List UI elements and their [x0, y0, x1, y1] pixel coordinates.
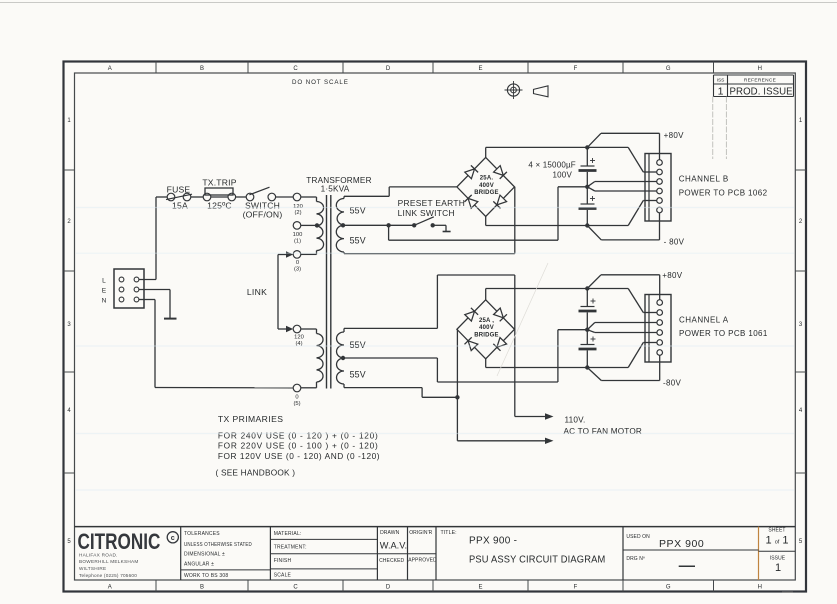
svg-text:TX.TRIP: TX.TRIP — [202, 178, 236, 188]
svg-text:A: A — [108, 584, 112, 590]
svg-text:W.A.V.: W.A.V. — [380, 541, 407, 551]
svg-text:PPX 900: PPX 900 — [659, 538, 704, 550]
svg-text:ISSUE: ISSUE — [770, 556, 786, 562]
svg-text:4 × 15000µF: 4 × 15000µF — [528, 161, 576, 170]
svg-text:ORIGIN'R: ORIGIN'R — [409, 530, 432, 536]
svg-text:ISS: ISS — [717, 78, 725, 84]
svg-text:POWER TO PCB 1061: POWER TO PCB 1061 — [679, 329, 768, 338]
svg-text:F: F — [574, 66, 578, 72]
svg-text:H: H — [758, 584, 762, 590]
svg-text:400V: 400V — [479, 183, 494, 189]
svg-text:FOR 240V USE (0 - 120 ) +: FOR 240V USE (0 - 120 ) + (0 - 120) — [218, 431, 379, 441]
svg-text:55V: 55V — [350, 340, 366, 350]
svg-text:HALIFAX ROAD.: HALIFAX ROAD. — [79, 552, 118, 557]
svg-text:BOWERHILL MELKSHAM: BOWERHILL MELKSHAM — [79, 559, 139, 564]
svg-text:F: F — [574, 584, 578, 590]
svg-text:TOLERANCES: TOLERANCES — [184, 531, 220, 537]
svg-text:400V: 400V — [479, 325, 494, 331]
svg-text:C: C — [293, 584, 298, 590]
svg-text:PSU ASSY CIRCUIT DIAGRAM: PSU ASSY CIRCUIT DIAGRAM — [469, 554, 605, 566]
svg-text:(3): (3) — [294, 267, 301, 273]
svg-text:0: 0 — [295, 395, 298, 401]
svg-text:FOR 220V USE (0 - 100 ) +: FOR 220V USE (0 - 100 ) + (0 - 120) — [218, 440, 379, 450]
svg-text:FINISH: FINISH — [274, 558, 292, 564]
svg-text:WORK TO BS 308: WORK TO BS 308 — [184, 573, 228, 579]
svg-text:LINK SWITCH: LINK SWITCH — [398, 208, 455, 218]
svg-text:1: 1 — [718, 86, 724, 98]
svg-text:- 80V: - 80V — [664, 238, 685, 247]
svg-text:TX PRIMARIES: TX PRIMARIES — [218, 414, 283, 424]
svg-text:REFERENCE: REFERENCE — [744, 78, 776, 84]
svg-text:G: G — [666, 584, 671, 590]
svg-text:c: c — [171, 533, 175, 542]
svg-text:TITLE:: TITLE: — [441, 530, 457, 536]
svg-text:(1): (1) — [294, 239, 301, 245]
svg-text:H: H — [758, 66, 762, 72]
svg-text:100V: 100V — [553, 170, 573, 179]
svg-text:25A.: 25A. — [480, 176, 494, 182]
svg-text:120: 120 — [294, 334, 304, 340]
svg-text:-80V: -80V — [663, 379, 681, 388]
svg-text:CITRONIC: CITRONIC — [78, 530, 161, 555]
svg-text:( SEE HANDBOOK ): ( SEE HANDBOOK ) — [216, 468, 296, 478]
svg-text:B: B — [200, 584, 204, 590]
svg-text:1·5KVA: 1·5KVA — [321, 185, 350, 194]
svg-text:E: E — [102, 287, 107, 294]
svg-text:USED ON: USED ON — [626, 534, 650, 540]
svg-text:100: 100 — [293, 232, 303, 238]
svg-text:N: N — [102, 297, 107, 304]
svg-text:(5): (5) — [293, 401, 300, 407]
svg-text:G: G — [666, 66, 671, 72]
svg-text:DO NOT SCALE: DO NOT SCALE — [292, 79, 349, 86]
svg-text:LINK: LINK — [247, 287, 267, 297]
svg-text:110V.: 110V. — [565, 416, 586, 425]
svg-text:E: E — [478, 66, 482, 72]
svg-text:ANGULAR ±: ANGULAR ± — [184, 561, 214, 567]
svg-text:D: D — [386, 584, 391, 590]
svg-text:APPROVED: APPROVED — [408, 558, 437, 564]
svg-text:DRG Nº: DRG Nº — [626, 556, 645, 562]
svg-text:C: C — [293, 66, 298, 72]
svg-text:25A ,: 25A , — [479, 318, 494, 324]
svg-text:CHANNEL B: CHANNEL B — [679, 174, 729, 183]
svg-text:SHEET: SHEET — [768, 528, 785, 534]
svg-text:FOR 120V USE (0 - 120): FOR 120V USE (0 - 120) AND (0 -120) — [218, 451, 380, 461]
svg-text:TREATMENT:: TREATMENT: — [274, 545, 307, 551]
svg-text:CHECKED: CHECKED — [379, 558, 404, 564]
svg-text:+80V: +80V — [664, 131, 684, 140]
svg-text:AC TO FAN MOTOR: AC TO FAN MOTOR — [564, 427, 643, 436]
svg-text:BRIDGE: BRIDGE — [474, 190, 499, 196]
svg-text:(2): (2) — [294, 210, 301, 216]
svg-text:1: 1 — [775, 562, 781, 574]
svg-text:+80V: +80V — [662, 271, 682, 280]
svg-text:DIMENSIONAL ±: DIMENSIONAL ± — [184, 551, 225, 557]
svg-text:55V: 55V — [350, 370, 366, 380]
svg-text:SCALE: SCALE — [274, 572, 292, 578]
svg-text:Telephone (0225) 705600: Telephone (0225) 705600 — [79, 573, 137, 578]
svg-text:E: E — [478, 584, 482, 590]
svg-text:0: 0 — [296, 260, 299, 266]
svg-text:FUSE: FUSE — [167, 184, 191, 194]
svg-text:POWER TO PCB 1062: POWER TO PCB 1062 — [679, 188, 768, 197]
svg-text:55V: 55V — [350, 236, 366, 246]
svg-text:120: 120 — [293, 204, 303, 210]
svg-text:PPX 900 -: PPX 900 - — [469, 536, 517, 547]
svg-text:PROD. ISSUE: PROD. ISSUE — [730, 86, 793, 97]
svg-text:PRESET EARTH: PRESET EARTH — [398, 198, 466, 208]
svg-text:UNLESS OTHERWISE STATED: UNLESS OTHERWISE STATED — [184, 542, 252, 548]
svg-text:WILTSHIRE: WILTSHIRE — [79, 566, 106, 571]
svg-text:DRAWN: DRAWN — [380, 530, 399, 536]
svg-text:BRIDGE: BRIDGE — [474, 332, 499, 338]
svg-text:CHANNEL A: CHANNEL A — [679, 315, 729, 324]
svg-text:15A: 15A — [172, 200, 188, 210]
svg-text:MATERIAL:: MATERIAL: — [274, 531, 302, 537]
svg-text:(OFF/ON): (OFF/ON) — [243, 209, 283, 219]
svg-text:B: B — [200, 66, 204, 72]
svg-text:D: D — [386, 66, 391, 72]
svg-text:L: L — [102, 277, 106, 284]
svg-text:125ºC: 125ºC — [207, 200, 232, 210]
svg-text:A: A — [108, 66, 112, 72]
